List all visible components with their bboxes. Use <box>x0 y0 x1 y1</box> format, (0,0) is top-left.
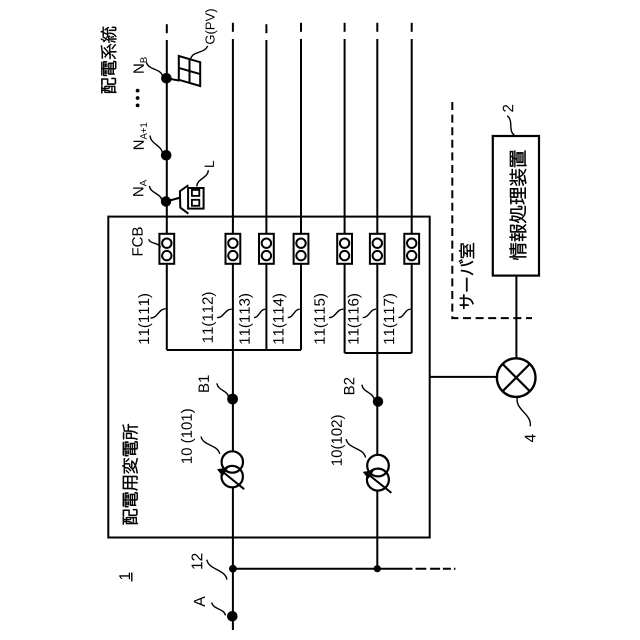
label 10(102) <box>331 415 345 465</box>
label 2 <box>503 105 514 112</box>
bus bar B2 (feeders 115-117) <box>345 352 412 354</box>
node N_A+1 <box>161 150 172 161</box>
wire feeder 114 upper segment <box>300 39 302 234</box>
leader 11(111) <box>151 309 166 318</box>
junction dot bus 12 / transformer 10(102) <box>374 565 381 572</box>
label N_A <box>133 180 146 196</box>
wire transformer 10(101) to bus 12 <box>232 487 234 569</box>
wire bus B1 to transformer 10(101) <box>232 350 234 451</box>
leader 11(112) <box>217 309 232 317</box>
wire transformer 10(102) to bus 12 <box>376 491 378 569</box>
ellipsis dots (more nodes) <box>136 89 140 93</box>
wire bus 12 to node A and beyond <box>232 569 234 630</box>
label 11(114) <box>273 294 287 344</box>
wire feeder 112 dashed tip <box>232 23 234 32</box>
label 4 <box>525 434 536 442</box>
wire device 2 to measurement device 4 <box>515 276 517 359</box>
underline of figure ref 1 <box>131 573 133 582</box>
label 11(116) <box>348 294 362 344</box>
leader A <box>212 603 226 616</box>
wire feeder 112 lower segment to bus <box>232 264 234 350</box>
wire node N_A to house <box>166 198 180 202</box>
wire feeder 116 upper segment <box>376 39 378 234</box>
wire feeder 117 upper segment <box>411 39 413 234</box>
label 12 <box>192 554 203 569</box>
leader 10(102) <box>346 439 366 458</box>
leader 12 <box>207 560 227 580</box>
load L (house) <box>180 185 204 214</box>
leader N_B <box>147 63 163 77</box>
label 11(115) <box>314 294 328 344</box>
wire feeder 114 dashed tip <box>300 23 302 32</box>
label 1 (figure ref) <box>119 573 130 580</box>
label L <box>205 161 214 167</box>
wire feeder 111 dashed tip <box>166 24 168 33</box>
leader B2 <box>362 385 374 400</box>
label 配電用変電所 (distribution substation) <box>122 424 138 525</box>
transformer 10(101) arrow head <box>217 467 228 476</box>
wire feeder 112 upper segment <box>232 39 234 234</box>
switch 11(112) <box>226 234 241 264</box>
label G(PV) <box>205 9 217 44</box>
switch 11(114) <box>294 234 309 264</box>
label 配電系統 (distribution grid) <box>101 27 117 94</box>
leader G(PV) <box>191 46 208 59</box>
wire feeder 113 lower segment to bus <box>265 264 267 350</box>
label A <box>194 596 205 607</box>
bus 12 horizontal line <box>233 568 413 570</box>
label B2 <box>344 378 355 394</box>
switch 11(117) <box>404 234 419 264</box>
label FCB <box>132 227 143 255</box>
transformer 10(102) arrow head <box>363 470 374 479</box>
switch 11(113) <box>259 234 274 264</box>
wire feeder 114 lower segment to bus <box>300 264 302 350</box>
leader 11(113) <box>254 309 265 317</box>
junction dot bus 12 / transformer 10(101) <box>229 565 237 573</box>
label 10 (101) <box>181 409 195 463</box>
wire feeder 115 dashed tip <box>344 23 346 32</box>
label N_A+1 <box>134 123 147 149</box>
bus 12 dashed continuation <box>416 568 456 570</box>
label 11(111) <box>138 294 152 344</box>
wire feeder 117 lower segment to bus <box>411 264 413 353</box>
node B1 <box>227 394 238 405</box>
wire feeder 111 upper segment <box>166 40 168 234</box>
wire feeder 116 lower segment to bus <box>376 264 378 353</box>
wire feeder 117 dashed tip <box>411 23 413 32</box>
leader 11(117) <box>398 309 410 317</box>
leader 11(114) <box>288 309 300 317</box>
leader FCB <box>149 239 161 247</box>
leader 11(116) <box>363 309 376 317</box>
leader N_A+1 <box>150 136 162 154</box>
label N_B <box>134 57 147 73</box>
label サーバ室 (server room) <box>459 243 474 309</box>
wire feeder 113 dashed tip <box>265 24 267 33</box>
label 11(113) <box>239 294 253 344</box>
leader N_A <box>150 186 163 201</box>
wire bus B2 to transformer 10(102) <box>376 353 378 455</box>
node N_A <box>161 196 171 206</box>
wire measurement device 4 to substation box <box>430 376 497 378</box>
wire feeder 116 dashed tip <box>376 23 378 32</box>
leader 4 <box>517 398 530 427</box>
leader L <box>197 170 209 186</box>
information processing device box U2 <box>493 136 539 276</box>
bus bar B1 (feeders 111-114) <box>167 349 301 351</box>
wire feeder 115 lower segment to bus <box>344 264 346 353</box>
switch 11(115) <box>337 234 352 264</box>
switch 11(116) <box>370 234 385 264</box>
substation box 配電用変電所 <box>108 217 429 538</box>
transformer 10(101) <box>222 451 245 489</box>
leader 10 (101) <box>201 437 220 455</box>
node N_B <box>161 73 172 84</box>
label 11(112) <box>202 293 216 343</box>
measurement device 4 (circled X) <box>497 358 536 397</box>
wire node N_B to PV panel <box>167 78 180 80</box>
leader 11(115) <box>329 309 343 317</box>
node A <box>227 611 238 622</box>
wire feeder 111 lower segment to bus <box>166 264 168 350</box>
label 情報処理装置 (information processing device) <box>509 150 526 260</box>
wire feeder 113 upper segment <box>265 40 267 234</box>
label B1 <box>199 375 209 391</box>
wire feeder 115 upper segment <box>344 39 346 234</box>
transformer 10(102) <box>367 455 392 493</box>
leader 2 <box>507 116 514 136</box>
label 11(117) <box>383 294 397 344</box>
PV generator G(PV) panel <box>179 56 200 86</box>
node B2 <box>373 396 383 406</box>
leader B1 <box>217 383 229 397</box>
circuit breaker FCB <box>159 234 174 264</box>
server room dashed boundary サーバ室 <box>452 102 532 318</box>
